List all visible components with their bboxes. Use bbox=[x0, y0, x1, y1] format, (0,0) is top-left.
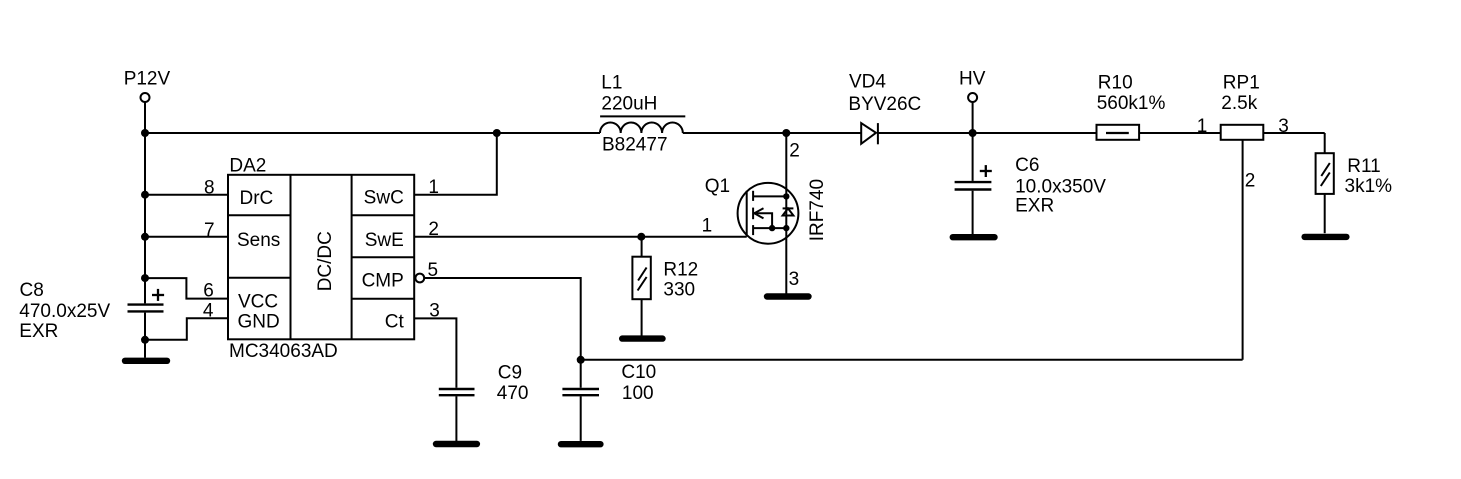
svg-text:3k1%: 3k1% bbox=[1345, 176, 1393, 197]
svg-text:10.0x350V: 10.0x350V bbox=[1015, 176, 1106, 197]
node junction rail pin 6 bbox=[141, 274, 149, 282]
svg-text:R12: R12 bbox=[663, 259, 698, 280]
svg-text:VD4: VD4 bbox=[849, 72, 886, 93]
svg-text:R11: R11 bbox=[1347, 156, 1380, 177]
svg-text:VCC: VCC bbox=[238, 292, 278, 313]
svg-text:6: 6 bbox=[203, 281, 214, 302]
value label L1 220uH B82477 bbox=[601, 73, 667, 156]
wire R10 to RP1 pin 1 bbox=[1139, 132, 1221, 134]
svg-text:RP1: RP1 bbox=[1223, 73, 1260, 94]
svg-text:3: 3 bbox=[1278, 116, 1289, 137]
value label C9 470 bbox=[497, 363, 529, 405]
wire P12V rail upper bbox=[144, 102, 146, 303]
svg-text:2: 2 bbox=[789, 140, 800, 161]
inductor L1 bbox=[600, 116, 685, 133]
svg-text:1: 1 bbox=[702, 216, 713, 237]
value label C8 470.0x25V EXR bbox=[19, 280, 110, 342]
value label R12 330 bbox=[663, 259, 698, 300]
node junction Q1 drain on main rail bbox=[782, 129, 790, 137]
wire VD4 cathode to R10 (HV net) bbox=[878, 132, 1097, 134]
svg-text:Q1: Q1 bbox=[705, 176, 730, 197]
node junction rail pin 4 bbox=[141, 336, 149, 344]
capacitor C8 bbox=[128, 289, 165, 312]
svg-text:220uH: 220uH bbox=[601, 93, 657, 114]
transistor Q1 IRF740 MOSFET bbox=[738, 133, 799, 294]
value label RP1 2.5k bbox=[1221, 73, 1259, 115]
svg-text:470: 470 bbox=[497, 383, 529, 404]
node junction rail pin 8 bbox=[141, 191, 149, 199]
node junction feedback at C10 bbox=[577, 356, 585, 364]
svg-text:C8: C8 bbox=[20, 280, 44, 301]
svg-text:7: 7 bbox=[204, 220, 215, 241]
svg-text:CMP: CMP bbox=[362, 271, 404, 292]
svg-text:2: 2 bbox=[1245, 171, 1256, 192]
resistor R11 bbox=[1316, 133, 1334, 233]
svg-text:100: 100 bbox=[622, 383, 654, 404]
svg-text:Ct: Ct bbox=[385, 311, 405, 332]
capacitor C10 bbox=[562, 389, 599, 441]
pin name labels DA2 bbox=[237, 188, 405, 333]
wire pin 2 SwE to Q1 gate bbox=[414, 236, 747, 238]
value label R11 3k1% bbox=[1345, 156, 1393, 197]
svg-text:BYV26C: BYV26C bbox=[848, 94, 921, 115]
IC DA2 MC34063AD outline bbox=[228, 175, 414, 340]
pin 5 inversion bubble bbox=[415, 274, 424, 283]
ground under C8 rail bbox=[125, 358, 167, 364]
value label VD4 BYV26C bbox=[848, 72, 921, 115]
svg-text:GND: GND bbox=[238, 312, 280, 333]
ground under C9 bbox=[436, 441, 477, 447]
diode VD4 bbox=[861, 123, 878, 144]
ground under C10 bbox=[561, 441, 600, 447]
capacitor C6 bbox=[955, 133, 992, 234]
svg-text:560k1%: 560k1% bbox=[1097, 93, 1166, 114]
node junction R12 tap bbox=[637, 233, 645, 241]
wire pin 3 Ct to C9 bbox=[414, 318, 456, 387]
svg-text:MC34063AD: MC34063AD bbox=[229, 341, 338, 362]
resistor R10 bbox=[1097, 125, 1140, 140]
svg-text:DC/DC: DC/DC bbox=[315, 231, 336, 291]
svg-text:1: 1 bbox=[1197, 116, 1208, 137]
node P12V terminal bbox=[124, 69, 171, 102]
node junction rail at main wire bbox=[141, 129, 149, 137]
node HV terminal bbox=[959, 68, 986, 133]
svg-text:DA2: DA2 bbox=[229, 156, 266, 177]
wire pin 4 bracket bbox=[145, 318, 228, 340]
svg-text:EXR: EXR bbox=[19, 321, 58, 342]
value label R10 560k1% bbox=[1097, 73, 1166, 114]
wire pin 1 SwC up to main rail bbox=[414, 133, 497, 195]
value label C10 100 bbox=[621, 362, 656, 404]
node junction HV on main rail bbox=[969, 129, 977, 137]
wire pin 8 branch bbox=[145, 194, 228, 196]
svg-text:Sens: Sens bbox=[237, 230, 280, 251]
svg-text:2.5k: 2.5k bbox=[1221, 93, 1257, 114]
svg-text:330: 330 bbox=[663, 279, 695, 300]
svg-text:SwC: SwC bbox=[364, 188, 404, 209]
ground under C6 bbox=[953, 234, 995, 240]
svg-text:L1: L1 bbox=[601, 73, 622, 94]
value label C6 10.0x350V EXR bbox=[1015, 155, 1106, 216]
svg-text:IRF740: IRF740 bbox=[807, 179, 828, 241]
svg-text:C9: C9 bbox=[498, 363, 522, 384]
potentiometer RP1 bbox=[1221, 125, 1264, 140]
ground under Q1 bbox=[767, 293, 809, 299]
ground under R11 bbox=[1305, 234, 1347, 240]
svg-text:C6: C6 bbox=[1015, 155, 1039, 176]
node junction SwC on main rail bbox=[493, 129, 501, 137]
svg-text:P12V: P12V bbox=[124, 69, 171, 90]
resistor R12 bbox=[632, 237, 650, 336]
svg-text:R10: R10 bbox=[1098, 73, 1133, 94]
svg-text:8: 8 bbox=[204, 178, 215, 199]
svg-text:SwE: SwE bbox=[365, 230, 404, 251]
capacitor C9 bbox=[439, 389, 475, 441]
svg-text:470.0x25V: 470.0x25V bbox=[19, 301, 110, 322]
svg-text:3: 3 bbox=[789, 269, 800, 290]
wire main top net P12V to L1 bbox=[145, 132, 600, 134]
svg-text:EXR: EXR bbox=[1015, 195, 1054, 216]
svg-text:C10: C10 bbox=[621, 362, 656, 383]
svg-text:HV: HV bbox=[959, 68, 986, 89]
node junction rail pin 7 bbox=[141, 233, 149, 241]
wire pin 6 bracket bbox=[145, 278, 228, 299]
wire P12V rail lower to ground bbox=[144, 313, 146, 358]
wire L1 to VD4 anode bbox=[683, 132, 861, 134]
ground under R12 bbox=[622, 335, 662, 341]
wire RP1 pin 3 to R11 bbox=[1263, 132, 1324, 134]
wire pin 5 CMP to C10 bbox=[424, 278, 581, 388]
wire feedback run from RP1 wiper to CMP/C10 bbox=[581, 140, 1243, 360]
svg-text:4: 4 bbox=[203, 300, 214, 321]
svg-text:B82477: B82477 bbox=[602, 134, 668, 155]
svg-text:DrC: DrC bbox=[240, 188, 274, 209]
wire pin 7 branch bbox=[145, 236, 228, 238]
